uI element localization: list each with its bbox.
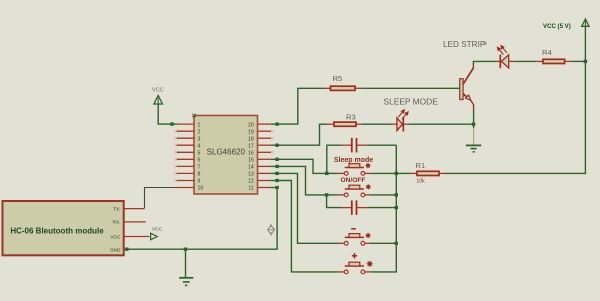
U1 pin 5 (174, 151, 200, 157)
U1 pin 11 (248, 186, 278, 192)
resistor R1 10k (411, 161, 446, 185)
svg-text:R1: R1 (416, 161, 426, 170)
push button S3 minus (339, 229, 371, 245)
power flag VCC (HC-06) (151, 227, 163, 240)
U1 pin 16 (248, 151, 274, 157)
wire U1 pin14 to S2 (277, 166, 327, 195)
wire C2 to right rail (368, 207, 396, 209)
wire Q1 emitter to ground (473, 111, 475, 129)
wire U1 pin17 to R3 (277, 124, 327, 145)
svg-text:ON/OFF: ON/OFF (341, 177, 366, 184)
wire U1 pin15 to S1 (277, 159, 327, 173)
capacitor C1 (341, 138, 368, 153)
wire S2 right to rail (370, 194, 396, 196)
wire U1 pin20 to R5 (277, 88, 326, 124)
led D2 LED STRIP (496, 46, 515, 69)
wire left rail to C1 (327, 145, 341, 173)
ground under HC-06 (179, 249, 193, 285)
chip U1 SLG46620 (192, 114, 257, 194)
svg-text:VCC: VCC (152, 227, 163, 233)
wire left rail2 to C2 (327, 195, 341, 208)
module HC-06 Bluetooth (3, 201, 150, 255)
U1 pin 8 (174, 172, 200, 178)
junction dot S2 left (325, 193, 328, 196)
U1 pin 6 (174, 158, 200, 164)
svg-text:8: 8 (198, 172, 201, 178)
junction dot S1 left (325, 172, 328, 175)
push button S2 ON/OFF (338, 177, 371, 197)
svg-text:SLEEP MODE: SLEEP MODE (384, 97, 439, 107)
svg-text:4: 4 (198, 143, 201, 149)
svg-text:10k: 10k (416, 179, 425, 185)
wire S1 left from rail (327, 172, 338, 174)
U1 pin 20 (248, 122, 279, 128)
wire rail to R1 (396, 172, 410, 174)
marker circle (484, 42, 487, 45)
U1 pin 2 (174, 129, 200, 135)
marker diamond (origin) (268, 224, 275, 236)
power flag VCC (5 V) (543, 19, 589, 30)
wire C1 to right rail (368, 144, 397, 146)
resistor R3 (327, 113, 362, 127)
svg-text:R4: R4 (542, 48, 552, 57)
U1 pin 18 (248, 136, 274, 142)
wire GND net: HC-06 GND to U1 pin11 (127, 188, 277, 250)
junction dot ground tap (184, 248, 187, 251)
svg-text:12: 12 (248, 179, 254, 185)
wire R3 to D1 (362, 123, 392, 125)
svg-text:14: 14 (248, 165, 254, 171)
svg-text:VCC: VCC (152, 88, 164, 94)
wire S1 right to rail (370, 172, 396, 174)
svg-text:2: 2 (198, 129, 201, 135)
svg-text:3: 3 (198, 136, 201, 142)
U1 pin 9 (174, 179, 200, 185)
svg-text:RX.: RX. (113, 220, 121, 226)
wire right rail (buttons common node) (370, 145, 396, 272)
svg-text:6: 6 (198, 158, 201, 164)
svg-text:15: 15 (248, 158, 254, 164)
wire D2 to R4 (515, 60, 537, 62)
svg-text:LED STRIP: LED STRIP (443, 40, 486, 49)
resistor R5 (326, 74, 361, 90)
svg-text:16: 16 (248, 151, 254, 157)
junction dot GND stub (125, 248, 128, 251)
U1 pin 13 (248, 172, 279, 178)
svg-text:Sleep mode: Sleep mode (334, 157, 373, 164)
junction dot node VCC/pin1 (170, 122, 173, 125)
U1 pin 4 (174, 143, 200, 149)
svg-text:5: 5 (198, 151, 201, 157)
svg-text:VCC (5 V): VCC (5 V) (543, 23, 571, 30)
svg-text:10: 10 (198, 186, 204, 192)
wire U1 pin13 to S3 (277, 173, 339, 243)
svg-text:18: 18 (248, 136, 254, 142)
svg-text:9: 9 (198, 179, 201, 185)
svg-text:TX.: TX. (113, 206, 120, 212)
svg-text:GND: GND (110, 247, 121, 253)
svg-text:19: 19 (248, 129, 254, 135)
U1 pin 19 (248, 129, 274, 135)
U1 pin 1 (177, 122, 201, 128)
U1 pin 14 (248, 165, 279, 171)
svg-text:13: 13 (248, 172, 254, 178)
ground under Q1 (466, 145, 481, 151)
svg-text:17: 17 (248, 143, 254, 149)
svg-text:SLG46620: SLG46620 (207, 147, 246, 156)
U1 pin 7 (174, 165, 200, 171)
U1 pin 12 (248, 179, 279, 185)
wire S3 right to rail (370, 242, 396, 244)
transistor Q1 (460, 65, 474, 111)
wire HC-06 TX to U1 pin10 (145, 188, 177, 209)
wire D1 to Q1 emitter node (408, 123, 473, 125)
svg-text:1: 1 (198, 122, 201, 128)
svg-text:R3: R3 (346, 113, 356, 122)
wire S2 left from rail (327, 194, 338, 196)
svg-text:7: 7 (198, 165, 201, 171)
svg-text:HC-06 Bleutooth module: HC-06 Bleutooth module (10, 227, 104, 236)
led D1 SLEEP MODE (392, 110, 409, 132)
power flag VCC (left of U1) (152, 88, 164, 105)
resistor R4 (536, 48, 571, 64)
U1 pin 15 (248, 158, 279, 164)
push button S4 plus (339, 253, 373, 274)
junction dot R4/rail (584, 60, 587, 63)
junction dots on right rail (395, 172, 398, 245)
U1 pin 10 (177, 186, 204, 192)
svg-text:R5: R5 (333, 74, 343, 83)
wire R5 to Q1 base (361, 87, 460, 89)
svg-text:11: 11 (248, 186, 253, 192)
svg-text:VCC: VCC (110, 234, 121, 240)
wire Q1 collector to D2 (473, 61, 495, 64)
wire U1 pin12 to S4 (277, 181, 339, 272)
capacitor C2 (341, 200, 368, 215)
U1 pin 3 (174, 136, 200, 142)
svg-text:20: 20 (248, 122, 254, 128)
U1 pin 17 (248, 143, 279, 149)
wire R4 to VCC rail (571, 60, 585, 62)
junction dot emitter node (472, 123, 475, 126)
push button S1 Sleep mode (334, 157, 373, 175)
wire VCC flag to U1 pin 1 (158, 104, 177, 124)
wire VCC rail down to R1 row (446, 26, 586, 173)
